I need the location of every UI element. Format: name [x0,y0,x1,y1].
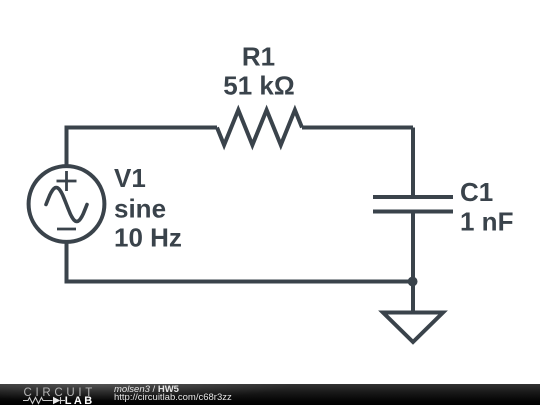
capacitor C1 top plate [373,195,453,199]
svg-text:V1: V1 [114,163,146,193]
capacitor C1 bottom plate [373,210,453,214]
wire top-left horizontal (V1 top to R1 left lead) [65,126,218,130]
svg-text:sine: sine [114,194,166,224]
footer bar [0,384,540,405]
svg-text:C1: C1 [460,177,493,207]
V1 sine waveform [46,188,87,222]
svg-text:10 Hz: 10 Hz [114,223,182,253]
svg-text:R1: R1 [242,42,275,72]
node junction dot [408,277,418,287]
V1 plus sign [57,171,77,191]
wire left vertical lower (V1 minus terminal) [65,241,69,283]
svg-text:1 nF: 1 nF [460,207,513,237]
logo diode triangle [53,397,60,405]
svg-text:LAB: LAB [65,395,95,405]
wire ground stub [411,282,415,312]
wire right vertical lower (C1 to ground node) [411,212,415,282]
CircuitLab logo [0,384,110,405]
logo resistor-diode wire [23,397,65,404]
V1 minus sign [57,228,76,231]
voltage source V1 circle [29,166,105,242]
ground symbol [383,313,443,343]
footer attribution text [114,385,179,395]
wire bottom horizontal (V1 minus to ground node) [65,280,414,284]
svg-text:51 kΩ: 51 kΩ [223,71,294,101]
wire top-right horizontal (R1 right lead to C1 branch) [302,126,413,130]
wire left vertical upper (V1 plus terminal) [65,126,69,168]
footer url [114,393,232,403]
wire right vertical upper (to C1 top plate) [411,128,415,198]
resistor R1 [217,110,302,145]
